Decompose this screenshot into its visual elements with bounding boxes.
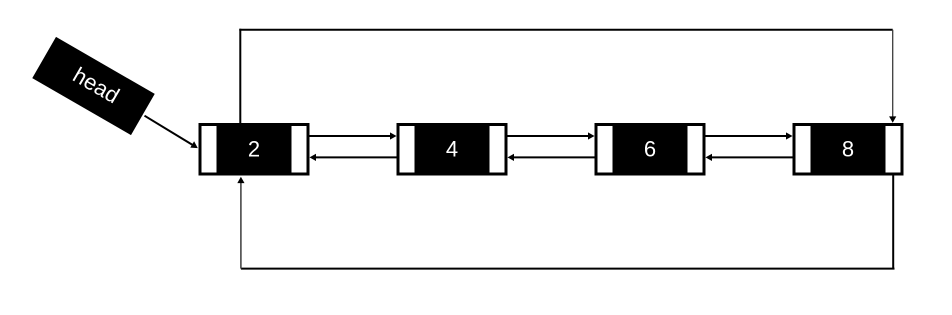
node 4 box	[397, 123, 508, 176]
node 2 box	[199, 123, 310, 176]
prev arrow node8 to node6	[706, 154, 793, 161]
next arrow node6 to node8	[706, 132, 793, 139]
head pointer box	[32, 37, 154, 135]
node 8 box	[793, 123, 904, 176]
next arrow node4 to node6	[508, 132, 595, 139]
svg-text:4: 4	[446, 137, 458, 162]
top wrap-around link: node2 top to node8 top	[239, 29, 896, 123]
node 6 box	[595, 123, 706, 176]
svg-text:2: 2	[248, 137, 260, 162]
prev arrow node4 to node2	[310, 154, 397, 161]
svg-text:8: 8	[842, 137, 854, 162]
head arrow to node 2	[145, 116, 198, 148]
svg-text:6: 6	[644, 137, 656, 162]
bottom wrap-around link: node8 bottom to node2 bottom	[237, 176, 894, 269]
next arrow node2 to node4	[310, 132, 397, 139]
prev arrow node6 to node4	[508, 154, 595, 161]
